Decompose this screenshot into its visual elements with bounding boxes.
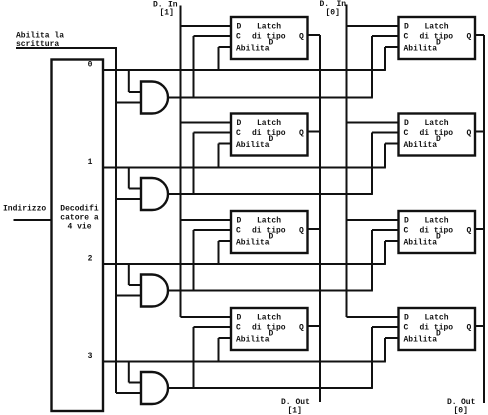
wire AND4 output: [168, 387, 373, 389]
net label Abilita la scrittura: [16, 32, 64, 50]
wire latch L4a Abilita riser: [219, 338, 232, 362]
svg-text:D: D: [237, 23, 242, 32]
svg-text:Abilita: Abilita: [236, 336, 270, 345]
wire latch L3a C riser: [194, 230, 232, 291]
wire D.In[0] vertical bus with branches: [347, 5, 399, 318]
svg-text:D: D: [237, 119, 242, 128]
svg-text:Latch: Latch: [257, 217, 281, 226]
and-gate A3: [141, 275, 168, 307]
svg-text:D: D: [404, 314, 409, 323]
svg-text:D: D: [404, 119, 409, 128]
svg-text:Abilita: Abilita: [404, 239, 438, 248]
svg-text:C: C: [236, 33, 241, 42]
wire AND1 bottom-input from write-enable: [116, 102, 142, 104]
svg-text:Q: Q: [299, 227, 304, 236]
svg-text:Latch: Latch: [425, 119, 449, 128]
svg-text:Q: Q: [467, 129, 472, 138]
wire AND4 top-input drop: [129, 362, 142, 383]
svg-text:Decodifi: Decodifi: [60, 205, 99, 214]
svg-text:1: 1: [88, 158, 93, 167]
svg-text:Latch: Latch: [257, 119, 281, 128]
svg-text:2: 2: [88, 255, 93, 264]
svg-text:3: 3: [88, 352, 93, 361]
latch U7 (bit0 row1, Latch di tipo D): [399, 114, 476, 156]
net label Indirizzo: [3, 205, 46, 214]
svg-text:Q: Q: [299, 33, 304, 42]
wire decoder output 1 horizontal: [103, 167, 386, 169]
svg-text:C: C: [236, 227, 241, 236]
svg-text:[1]: [1]: [288, 407, 302, 415]
wire latch L3a Abilita riser: [219, 241, 232, 264]
wire latch L4b Abilita riser: [385, 338, 399, 362]
wire latch L2b Abilita riser: [385, 144, 399, 168]
svg-text:4 vie: 4 vie: [67, 223, 91, 232]
wire decoder output 2 horizontal: [103, 263, 386, 265]
wire latch L2a C riser: [194, 133, 232, 195]
svg-text:Indirizzo: Indirizzo: [3, 205, 46, 214]
wire AND1 top-input drop: [129, 70, 142, 92]
svg-text:Q: Q: [299, 324, 304, 333]
svg-text:C: C: [236, 324, 241, 333]
svg-text:C: C: [404, 324, 409, 333]
wire AND2 output: [168, 193, 373, 195]
latch U4 (bit1 row2, Latch di tipo D): [231, 211, 308, 253]
svg-text:D: D: [404, 23, 409, 32]
wire AND4 bottom-input from write-enable: [116, 392, 142, 394]
svg-text:C: C: [236, 129, 241, 138]
svg-text:Q: Q: [467, 33, 472, 42]
decoder output pin label 2: [88, 255, 93, 264]
wire decoder output 3 horizontal: [103, 361, 386, 363]
wire AND3 top-input drop: [129, 264, 142, 285]
svg-text:D: D: [237, 217, 242, 226]
svg-text:[0]: [0]: [454, 407, 468, 415]
svg-text:0: 0: [88, 61, 93, 70]
wire latch L4a C riser: [194, 327, 232, 388]
svg-text:D: D: [404, 217, 409, 226]
latch U9 (bit0 row3, Latch di tipo D): [399, 308, 476, 350]
svg-text:catore a: catore a: [60, 214, 99, 223]
wire latch L3b Abilita riser: [385, 241, 399, 264]
wire latch L3b C riser: [372, 230, 399, 291]
svg-text:Latch: Latch: [257, 23, 281, 32]
and-gate A1: [141, 82, 168, 114]
decoder output pin label 0: [88, 61, 93, 70]
decoder U1 (Decodificatore a 4 vie): [52, 60, 104, 412]
svg-text:[0]: [0]: [326, 9, 340, 18]
and-gate A4: [141, 372, 168, 404]
svg-text:Abilita: Abilita: [236, 45, 270, 54]
latch U3 (bit1 row1, Latch di tipo D): [231, 114, 308, 156]
latch U5 (bit1 row3, Latch di tipo D): [231, 308, 308, 350]
wire latch L1b C riser: [372, 36, 399, 98]
wire write-enable horizontal: [16, 47, 117, 49]
wire latch L1b Abilita riser: [385, 47, 399, 70]
svg-text:[1]: [1]: [160, 9, 174, 18]
wire AND2 bottom-input from write-enable: [116, 198, 142, 200]
svg-text:Abilita: Abilita: [236, 239, 270, 248]
latch U2 (bit1 row0, Latch di tipo D): [231, 17, 308, 59]
svg-text:Abilita: Abilita: [404, 45, 438, 54]
svg-text:Latch: Latch: [425, 23, 449, 32]
svg-text:C: C: [404, 129, 409, 138]
svg-text:Abilita: Abilita: [404, 141, 438, 150]
svg-text:Q: Q: [467, 324, 472, 333]
wire AND2 top-input drop: [129, 168, 142, 189]
svg-text:Latch: Latch: [425, 314, 449, 323]
wire AND3 output: [168, 290, 373, 292]
net label D. Out [1]: [281, 398, 310, 415]
svg-text:Q: Q: [299, 129, 304, 138]
svg-text:C: C: [404, 33, 409, 42]
wire latch L1a Abilita riser: [219, 47, 232, 70]
wire D.In[1] vertical bus with branches: [181, 6, 232, 318]
wire latch L2a Abilita riser: [219, 144, 232, 168]
wire decoder output 0 horizontal: [103, 69, 386, 71]
wire D.Out[1] bus collecting Q outputs: [308, 35, 321, 402]
net label D. In [0]: [320, 0, 347, 18]
svg-text:C: C: [404, 227, 409, 236]
svg-text:Q: Q: [467, 227, 472, 236]
wire AND1 output: [168, 97, 373, 99]
svg-text:Abilita: Abilita: [236, 141, 270, 150]
svg-text:Latch: Latch: [257, 314, 281, 323]
wire D.Out[0] bus collecting Q outputs: [476, 35, 485, 403]
wire write-enable vertical bus: [115, 48, 117, 393]
net label D. Out [0]: [447, 398, 476, 415]
latch U8 (bit0 row2, Latch di tipo D): [399, 211, 476, 253]
decoder output pin label 1: [88, 158, 93, 167]
svg-text:D: D: [237, 314, 242, 323]
wire latch L1a C riser: [194, 36, 232, 98]
wire Indirizzo input: [14, 219, 53, 221]
wire latch L4b C riser: [372, 327, 399, 388]
latch U6 (bit0 row0, Latch di tipo D): [399, 17, 476, 59]
wire latch L2b C riser: [372, 133, 399, 195]
svg-text:Latch: Latch: [425, 217, 449, 226]
and-gate A2: [141, 178, 168, 210]
wire AND3 bottom-input from write-enable: [116, 295, 142, 297]
svg-text:Abilita: Abilita: [404, 336, 438, 345]
decoder output pin label 3: [88, 352, 93, 361]
net label D. In [1]: [153, 1, 178, 18]
